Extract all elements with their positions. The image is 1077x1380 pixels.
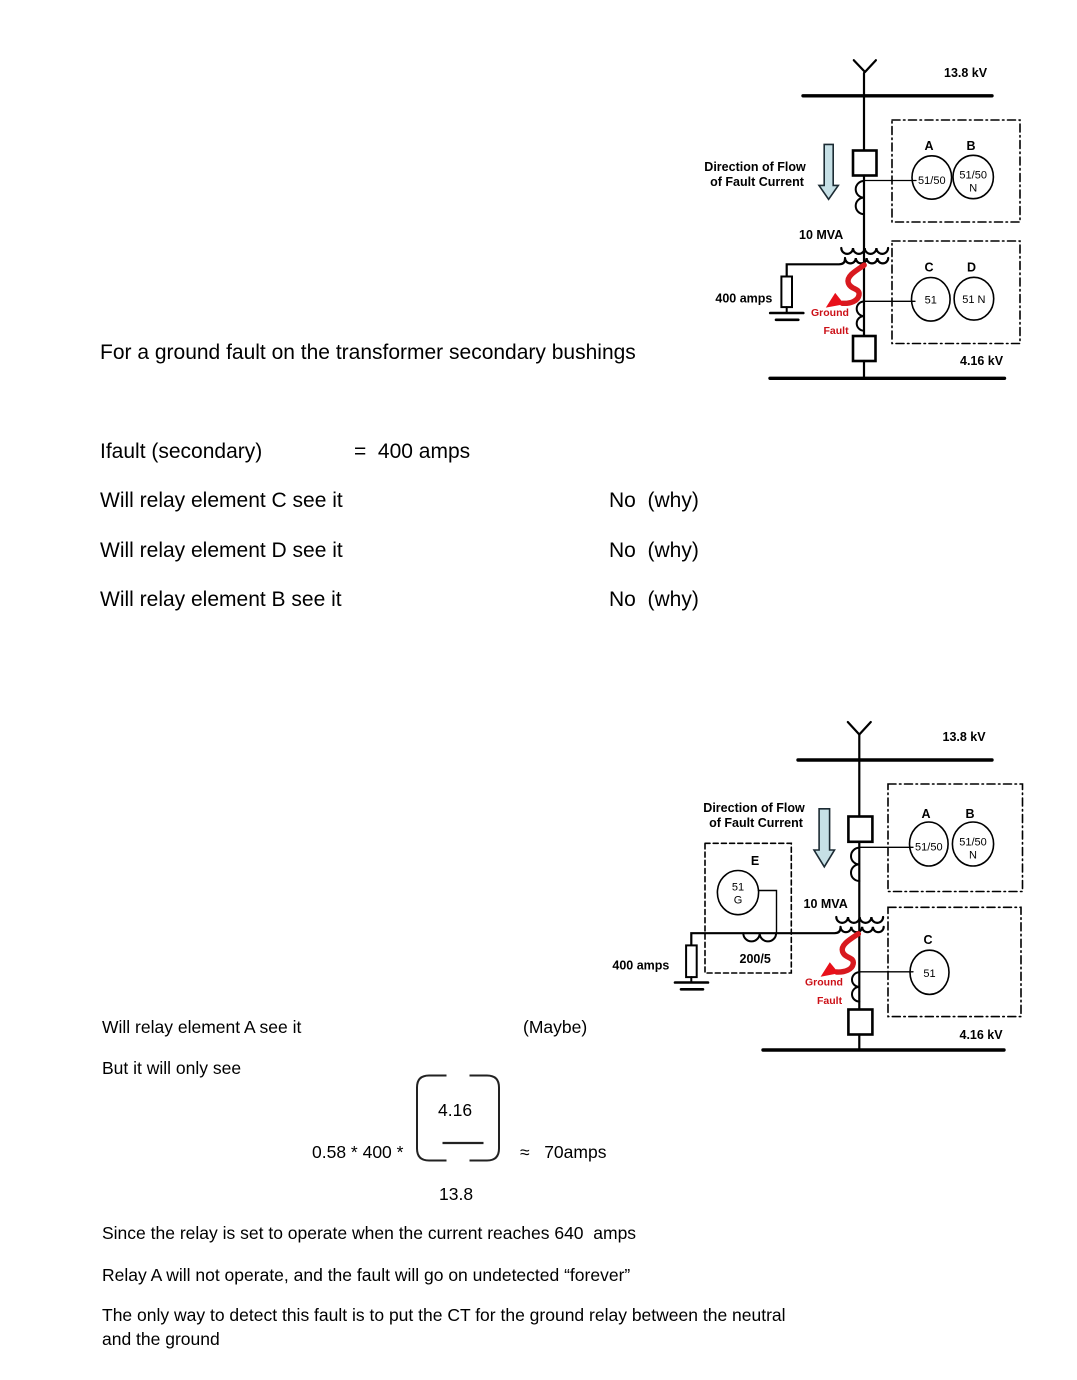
svg-text:400 amps: 400 amps [715,292,772,306]
relay zone box C D (dash-dot) [892,241,1020,344]
wire CT A secondary lead [864,180,916,182]
CT (LV) [857,302,864,331]
transformer 10 MVA secondary winding [845,258,888,263]
relay A 51/50 [912,156,952,199]
relay B 51/50 N [952,822,993,866]
ground fault arrow (red) [842,265,864,303]
svg-text:E: E [751,854,759,868]
svg-text:51: 51 [923,968,935,980]
wire CT C secondary lead [859,971,913,973]
wire [858,1035,860,1051]
ground fault arrow (red) [837,934,859,972]
svg-text:51/50: 51/50 [915,842,943,854]
svg-text:N: N [969,183,977,195]
neutral grounding resistor [781,277,792,308]
wire transformer neutral [691,928,840,946]
wire [858,842,860,1010]
wire [690,977,692,982]
relay C 51 [912,278,951,322]
svg-text:51 N: 51 N [962,294,985,306]
svg-text:A: A [924,139,933,153]
svg-text:10 MVA: 10 MVA [799,228,843,242]
breaker 52 (LV) [848,1010,872,1035]
svg-text:G: G [734,895,743,907]
svg-text:200/5: 200/5 [740,952,771,966]
svg-text:51/50: 51/50 [959,170,987,182]
CT (LV) [852,972,859,1001]
neutral grounding resistor [686,945,697,977]
bus 4.16 kV [770,377,1005,380]
relay zone box A B (dash-dot) [888,784,1023,892]
svg-text:Ground: Ground [811,307,849,319]
relay zone box C (dash-dot) [888,907,1021,1016]
relay D 51 N [954,277,994,320]
CT 200/5 (neutral) [743,933,776,941]
relay A 51/50 [910,822,949,866]
breaker 52 (LV) [853,336,876,361]
svg-text:Fault: Fault [817,995,843,1007]
svg-text:13.8 kV: 13.8 kV [943,730,987,744]
wire CT A secondary lead [859,846,913,848]
relay C 51 [910,950,949,994]
bus 4.16 kV [763,1048,1004,1051]
relay zone box E (dashed) [705,843,791,973]
svg-text:4.16 kV: 4.16 kV [960,1028,1004,1042]
svg-text:C: C [923,933,932,947]
relay E 51 G [717,871,758,915]
wire feeder upper [858,735,860,817]
svg-text:51/50: 51/50 [918,175,946,187]
wire [863,176,865,337]
svg-text:Direction of Flow: Direction of Flow [704,160,806,174]
ground [675,983,708,990]
bus 13.8 kV [798,758,992,761]
svg-text:10 MVA: 10 MVA [804,897,848,911]
wire transformer neutral [787,259,845,277]
wire relay E to CT [758,891,776,934]
svg-text:of Fault Current: of Fault Current [710,175,805,189]
svg-text:Direction of Flow: Direction of Flow [703,801,805,815]
svg-text:B: B [965,807,974,821]
svg-text:B: B [966,139,975,153]
svg-text:51/50: 51/50 [959,837,987,849]
bus 13.8 kV [803,94,992,97]
svg-text:400 amps: 400 amps [612,959,669,973]
wire CT C secondary lead [864,300,915,302]
svg-text:51: 51 [732,882,744,894]
transformer 10 MVA primary winding [841,248,888,254]
svg-text:of Fault Current: of Fault Current [709,816,804,830]
svg-text:C: C [924,261,933,275]
svg-text:13.8 kV: 13.8 kV [944,66,988,80]
transformer 10 MVA secondary winding [841,927,884,932]
incoming source Y fork [848,722,871,735]
breaker 52 (HV) [853,151,877,176]
wire feeder upper [863,73,865,150]
svg-text:Ground: Ground [805,977,843,989]
fraction bar [443,1142,484,1144]
CT (HV) [851,848,859,881]
fraction bracket [410,1068,510,1172]
transformer 10 MVA primary winding [836,917,883,923]
direction of flow arrow [814,809,835,867]
svg-text:D: D [967,261,976,275]
wire [786,307,788,313]
bracket [417,1076,447,1161]
CT (HV) [856,181,864,214]
svg-text:Fault: Fault [824,325,850,337]
svg-text:4.16 kV: 4.16 kV [960,354,1004,368]
relay B 51/50 N [953,155,993,198]
relay zone box A B (dash-dot) [892,120,1020,222]
breaker 52 (HV) [848,817,872,842]
ground [770,313,803,320]
svg-text:N: N [969,850,977,862]
wire [863,361,865,378]
svg-text:A: A [921,807,930,821]
incoming source Y fork [854,60,876,72]
direction of flow arrow [819,144,838,199]
svg-text:51: 51 [925,295,937,307]
